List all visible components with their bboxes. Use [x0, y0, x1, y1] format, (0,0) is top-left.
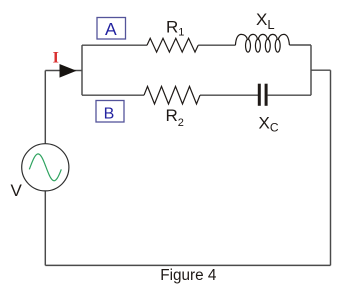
wire left bus — [81, 45, 83, 95]
wire left rail bottom — [44, 191, 46, 265]
source V — [22, 144, 69, 191]
wire input with arrow — [45, 70, 82, 72]
wire right bus — [310, 45, 312, 95]
wire output stub — [311, 69, 331, 71]
resistor R2 — [144, 86, 200, 104]
svg-text:V: V — [11, 181, 23, 200]
svg-text:B: B — [104, 106, 115, 123]
wire branch A left — [82, 44, 147, 46]
wire branch B mid — [200, 94, 258, 96]
wire branch B right — [268, 94, 311, 96]
node box B — [96, 101, 124, 123]
sine symbol — [29, 154, 61, 181]
capacitor XC plates — [259, 84, 266, 106]
wire bottom — [45, 264, 330, 266]
node box A — [97, 18, 126, 40]
wire branch B left — [82, 94, 144, 96]
svg-text:Figure 4: Figure 4 — [160, 267, 217, 284]
svg-text:I: I — [53, 49, 59, 66]
resistor R1 — [147, 38, 198, 52]
wire right rail — [330, 70, 332, 265]
current arrow I — [60, 64, 77, 78]
wire left rail top — [44, 71, 46, 145]
svg-text:A: A — [105, 19, 117, 39]
wire branch A right — [289, 44, 311, 46]
inductor XL — [235, 34, 289, 52]
wire branch A mid — [198, 44, 235, 46]
